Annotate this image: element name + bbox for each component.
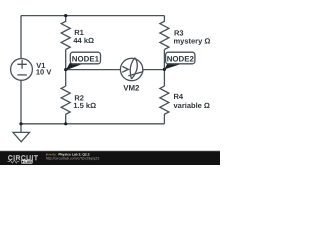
wire left rail lower [20, 80, 22, 124]
wire R3 to R4 column [163, 50, 165, 87]
svg-text:R4: R4 [174, 92, 184, 101]
junction dot node NODE2 tap [163, 68, 166, 71]
junction dot bottom of R2 [64, 122, 67, 125]
wire middle left (NODE1 to VM2) [66, 69, 121, 71]
svg-text:VM2: VM2 [123, 84, 140, 93]
wire R1 to R2 column [65, 50, 67, 87]
voltmeter VM2 [120, 58, 143, 81]
junction dot node NODE1 tap [64, 68, 67, 71]
label R4 value [174, 92, 210, 110]
svg-text:1.5 kΩ: 1.5 kΩ [73, 101, 96, 110]
label V1 value [36, 61, 51, 76]
svg-text:44 kΩ: 44 kΩ [73, 36, 94, 45]
resistor R1 [61, 16, 70, 50]
label R3 value [174, 28, 211, 45]
wire left rail upper [20, 16, 22, 59]
svg-text:http://circuitlab.com/c/7pv29q: http://circuitlab.com/c/7pv29q/q23 [46, 156, 100, 160]
resistor R3 [160, 16, 169, 50]
voltage source V1 [11, 59, 33, 81]
node NODE2 flag [164, 52, 195, 69]
logo resistor squiggle [8, 160, 20, 163]
banner bar [0, 150, 220, 151]
wire middle right (VM2 to NODE2) [143, 69, 165, 71]
label R2 value [73, 94, 96, 111]
junction dot ground [19, 122, 22, 125]
svg-text:NODE2: NODE2 [167, 54, 195, 63]
label R1 value [73, 28, 94, 45]
logo LAB box [21, 160, 33, 164]
wire top rail [21, 15, 164, 17]
ground [13, 124, 30, 142]
resistor R2 [61, 86, 70, 124]
resistor R4 [160, 86, 169, 124]
svg-text:variable Ω: variable Ω [174, 101, 210, 110]
wire bottom rail [21, 123, 164, 125]
node NODE1 flag [66, 52, 101, 70]
svg-text:10 V: 10 V [36, 68, 51, 77]
junction dot top of R1 [64, 14, 67, 17]
svg-text:mystery Ω: mystery Ω [174, 37, 211, 46]
svg-text:LAB: LAB [24, 160, 32, 164]
svg-text:NODE1: NODE1 [72, 54, 100, 63]
